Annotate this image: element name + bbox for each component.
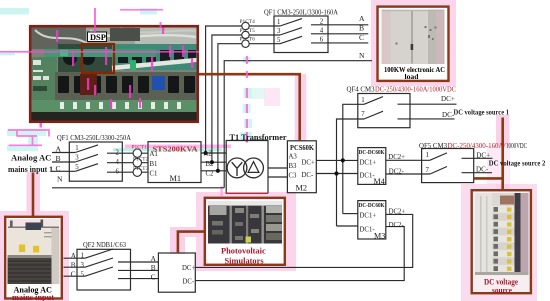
svg-text:3: 3 bbox=[75, 154, 79, 161]
svg-text:4: 4 bbox=[320, 27, 324, 34]
BOXES bbox=[69, 16, 473, 292]
wire QF2 out A to PV converter bbox=[118, 261, 158, 263]
wire M4 DC2+ to QF5 bbox=[386, 159, 430, 161]
transformer T1 delta symbol bbox=[248, 162, 259, 173]
svg-text:6: 6 bbox=[320, 36, 324, 43]
breaker QF1-160A blade pole3 bbox=[280, 28, 302, 35]
svg-text:B: B bbox=[359, 23, 364, 32]
junction node DC- bus bbox=[334, 171, 338, 175]
wire QF1-250A out A to STS bbox=[107, 152, 148, 154]
svg-text:DC2+: DC2+ bbox=[389, 208, 406, 215]
wire QF5 out DC+ bbox=[462, 157, 493, 159]
magenta vertical tick above DSP photo right bbox=[160, 22, 162, 28]
junction node DC+ bus bbox=[341, 158, 345, 162]
breaker QF1-160A blade pole1 bbox=[280, 19, 302, 26]
transformer T1 delta winding circle bbox=[244, 158, 264, 178]
svg-text:A3: A3 bbox=[289, 153, 298, 160]
svg-text:DC-DC60K: DC-DC60K bbox=[359, 203, 385, 209]
svg-text:7: 7 bbox=[361, 111, 365, 118]
svg-text:C: C bbox=[151, 272, 156, 281]
cyan smear top left bbox=[0, 8, 29, 15]
transformer T1 wye winding circle bbox=[227, 158, 247, 178]
glow right of QF5 bbox=[487, 146, 510, 184]
svg-text:4: 4 bbox=[116, 159, 120, 166]
svg-text:3: 3 bbox=[277, 28, 281, 35]
breaker QF1-160A blade pole5 bbox=[280, 36, 302, 43]
breaker QF2 NDB1/C63 box bbox=[77, 249, 131, 290]
svg-text:P1CT1: P1CT1 bbox=[132, 144, 148, 150]
DC source photo frame bbox=[472, 190, 531, 293]
breaker QF1 CM3-250L/3300-160A box bbox=[274, 16, 328, 53]
breaker QF4 blade pole7 bbox=[364, 111, 383, 119]
current transformer P1CT2 bbox=[133, 159, 141, 167]
analog AC mains input photo bbox=[5, 217, 62, 301]
glow around analog AC brown feeder bbox=[27, 172, 41, 217]
wire M3 DC2- loop to PV converter DC- bbox=[195, 227, 404, 281]
svg-text:N: N bbox=[57, 175, 63, 184]
DSP inverter cabinet photo bbox=[30, 26, 198, 122]
svg-text:A: A bbox=[56, 145, 62, 154]
svg-text:DC-: DC- bbox=[183, 278, 195, 285]
magenta tick below DSP photo bbox=[40, 120, 43, 128]
STS200KVA M1 box bbox=[148, 142, 201, 183]
svg-text:STS200KVA: STS200KVA bbox=[153, 145, 198, 154]
photovoltaic simulators feeder bbox=[178, 232, 205, 253]
current transformer P1CT3 bbox=[133, 168, 141, 176]
svg-text:3: 3 bbox=[81, 262, 85, 269]
svg-text:P1CT2: P1CT2 bbox=[133, 157, 149, 163]
wire QF5 out DC- bbox=[462, 172, 492, 174]
wire DC+ riser to QF4 pin1 and down to M3 bbox=[343, 104, 364, 213]
wire QF1-160A out A to load bbox=[311, 24, 368, 26]
breaker QF5 blade pole1 bbox=[430, 153, 447, 160]
svg-text:1: 1 bbox=[81, 253, 84, 260]
converter PCS60K M2 box bbox=[287, 141, 316, 193]
wire DC+ branch into M3 DC1+ bbox=[343, 213, 358, 215]
svg-text:DC1-: DC1- bbox=[360, 227, 376, 234]
current transformer P1CT5 bbox=[242, 31, 249, 38]
svg-text:DC-250/4300-160A/: DC-250/4300-160A/ bbox=[448, 141, 507, 150]
svg-text:A2: A2 bbox=[204, 151, 213, 158]
svg-text:QF1 CM3-250L/3300-160A: QF1 CM3-250L/3300-160A bbox=[264, 7, 339, 16]
svg-text:5: 5 bbox=[81, 271, 85, 278]
DSP control link to PCS60K bbox=[198, 74, 300, 140]
photovoltaic converter box bbox=[158, 253, 195, 292]
breaker QF1-250A blade pole3 bbox=[75, 154, 98, 162]
photovoltaic simulators photo bbox=[205, 198, 285, 265]
wire QF2 out B to PV converter bbox=[118, 269, 158, 271]
svg-text:B: B bbox=[151, 263, 156, 272]
svg-text:DC1+: DC1+ bbox=[360, 159, 377, 166]
svg-text:DC1+: DC1+ bbox=[360, 212, 377, 219]
breaker QF2 blade pole1 bbox=[85, 249, 113, 258]
teal dash on T1 top edge bbox=[250, 139, 267, 141]
wire neutral N bus bbox=[52, 187, 224, 189]
svg-text:M2: M2 bbox=[296, 184, 308, 193]
svg-text:A: A bbox=[151, 254, 157, 263]
breaker QF4 box bbox=[358, 94, 410, 128]
glow around 100KW load photo bbox=[371, 0, 456, 86]
BROWN bbox=[33, 74, 504, 253]
svg-text:DC-: DC- bbox=[476, 166, 489, 174]
svg-text:C: C bbox=[56, 164, 61, 173]
cyan dash left of magenta scan line bbox=[0, 53, 15, 56]
junction node STS A2 bbox=[204, 151, 208, 155]
svg-text:1: 1 bbox=[426, 152, 429, 159]
wire T1 secondary to PCS lower bbox=[268, 176, 288, 178]
pink tick left of T1 bottom bbox=[221, 186, 223, 196]
breaker QF1-250A blade pole5 bbox=[75, 164, 98, 172]
svg-text:P1CT3: P1CT3 bbox=[133, 166, 149, 172]
wire QF4 out DC+ bbox=[398, 103, 457, 105]
svg-text:DC2-: DC2- bbox=[389, 168, 405, 175]
wire DC- riser to QF4 pin7 and down to M3 bbox=[337, 119, 365, 226]
ARTIFACTS bbox=[0, 8, 280, 196]
svg-text:2: 2 bbox=[320, 18, 324, 25]
wire DC- branch into M3 DC1- bbox=[337, 225, 358, 227]
glow around DC voltage source photo bbox=[461, 184, 537, 301]
svg-text:DC+: DC+ bbox=[302, 160, 315, 167]
svg-text:QF1 CM3-250L/3300-250A: QF1 CM3-250L/3300-250A bbox=[57, 133, 132, 142]
svg-text:5: 5 bbox=[75, 164, 79, 171]
cyan band below STS label row bbox=[113, 148, 222, 151]
svg-text:C: C bbox=[359, 33, 364, 42]
current transformer P1CT1 bbox=[133, 149, 141, 157]
svg-text:B1: B1 bbox=[150, 161, 158, 168]
transformer T1 box bbox=[226, 141, 268, 194]
glow around analog AC mains photo bbox=[0, 211, 69, 301]
svg-text:B: B bbox=[71, 260, 76, 269]
svg-text:source: source bbox=[492, 286, 512, 295]
wire phase B into QF2 bbox=[64, 266, 86, 268]
wire STS A2 to T1 bbox=[201, 152, 226, 154]
svg-text:1: 1 bbox=[361, 97, 364, 104]
svg-text:1000VDC: 1000VDC bbox=[506, 141, 527, 150]
svg-text:DC2+: DC2+ bbox=[388, 154, 405, 161]
glow band along DC source 1 brown feeder bbox=[496, 115, 510, 190]
magenta dashed sampling trace bbox=[246, 88, 248, 142]
magenta tick over T1 label bbox=[246, 138, 248, 143]
svg-text:1: 1 bbox=[75, 145, 78, 152]
svg-text:M4: M4 bbox=[374, 177, 385, 186]
photovoltaic photo frame bbox=[205, 198, 285, 265]
breaker QF5 blade pole7 bbox=[430, 167, 447, 175]
breaker QF5 box bbox=[422, 149, 474, 183]
svg-text:C1: C1 bbox=[150, 170, 158, 177]
100KW electronic AC load photo bbox=[378, 7, 449, 81]
svg-text:1: 1 bbox=[277, 19, 280, 26]
svg-text:B3: B3 bbox=[289, 163, 298, 170]
cyan blobs of dashed sampling trace bbox=[240, 57, 252, 141]
svg-text:C: C bbox=[71, 270, 76, 279]
wire PCS DC- bus to M4 bbox=[316, 173, 358, 175]
wire QF2 out C to PV converter bbox=[118, 278, 158, 280]
converter DC-DC60K M3 box bbox=[358, 201, 386, 239]
svg-text:DC voltage source 1: DC voltage source 1 bbox=[454, 107, 510, 116]
wire QF1-250A out C to STS bbox=[107, 171, 148, 173]
wire STS B2 to T1 bbox=[201, 161, 226, 163]
svg-text:A: A bbox=[359, 14, 365, 23]
wire riser C to CT6 bbox=[218, 44, 280, 171]
converter DC-DC60K M4 box bbox=[358, 148, 386, 185]
svg-text:QF4 CM3: QF4 CM3 bbox=[347, 85, 375, 94]
svg-text:PCS60K: PCS60K bbox=[290, 143, 314, 152]
svg-text:A: A bbox=[71, 251, 77, 260]
wire neutral riser to load bbox=[224, 61, 372, 188]
svg-text:Analog AC: Analog AC bbox=[11, 153, 51, 163]
svg-text:N: N bbox=[359, 51, 365, 60]
wire phase C into QF2 bbox=[64, 275, 86, 277]
wire phase A into QF2 bbox=[64, 257, 86, 259]
svg-text:5: 5 bbox=[277, 37, 281, 44]
svg-text:P1CT4: P1CT4 bbox=[240, 19, 256, 25]
wire phase C into QF1 mains bbox=[52, 170, 75, 172]
svg-text:Photovoltaic: Photovoltaic bbox=[221, 247, 266, 256]
svg-text:DC-DC60K: DC-DC60K bbox=[359, 150, 385, 156]
pale pink block right of DSP photo bbox=[264, 88, 280, 106]
junction node STS B2 bbox=[210, 160, 214, 164]
svg-text:T1 Transformer: T1 Transformer bbox=[230, 133, 287, 142]
svg-text:DC+: DC+ bbox=[441, 95, 455, 103]
svg-text:7: 7 bbox=[426, 167, 430, 174]
svg-text:B: B bbox=[56, 154, 61, 163]
current transformer P1CT6 bbox=[242, 40, 249, 47]
magenta band through STS label row bbox=[125, 145, 231, 149]
DSP photo frame bbox=[30, 26, 198, 122]
svg-text:QF2 NDB1/C63: QF2 NDB1/C63 bbox=[83, 240, 126, 249]
svg-text:Simulators: Simulators bbox=[225, 256, 265, 265]
magenta vertical tick above DSP photo bbox=[94, 8, 96, 33]
wire PCS DC+ bus to M4 bbox=[316, 159, 358, 161]
analog AC photo frame bbox=[5, 217, 62, 299]
svg-text:DC2-: DC2- bbox=[389, 222, 405, 229]
transformer T1 crimson bottom edge bbox=[226, 192, 268, 194]
svg-text:M3: M3 bbox=[374, 231, 385, 240]
breaker QF1-250A blade pole1 bbox=[75, 145, 98, 153]
analog AC mains feeder bbox=[32, 173, 35, 217]
magenta ticks crossing N bus and DSP link bbox=[246, 56, 248, 64]
wire M4 DC2- to QF5 bbox=[386, 173, 430, 175]
svg-text:DC voltage source 2: DC voltage source 2 bbox=[489, 158, 546, 167]
pale cyan block right of DSP photo bbox=[248, 88, 265, 99]
transformer T1 wye symbol bbox=[232, 162, 243, 176]
DC voltage source 1 feeder bbox=[501, 118, 504, 191]
magenta scan line across DSP photo bbox=[0, 51, 199, 53]
wire phase A into QF1 mains bbox=[52, 152, 75, 154]
100KW load photo frame bbox=[378, 7, 449, 81]
wire QF4 out DC- bbox=[398, 118, 455, 120]
svg-text:C3: C3 bbox=[289, 173, 298, 180]
wire riser A to CT4 bbox=[206, 26, 280, 153]
svg-text:C2: C2 bbox=[206, 171, 215, 178]
junction node STS C2 bbox=[216, 169, 220, 173]
QF5 to DC voltage source feeder bbox=[474, 177, 504, 180]
svg-text:mains input 1: mains input 1 bbox=[8, 164, 53, 174]
breaker QF2 blade pole5 bbox=[85, 267, 113, 276]
svg-text:load: load bbox=[405, 72, 420, 81]
svg-text:mains input: mains input bbox=[12, 293, 54, 301]
wire QF1-250A out B to STS bbox=[107, 162, 148, 164]
breaker QF2 blade pole3 bbox=[85, 258, 113, 267]
DC voltage source photo bbox=[472, 190, 531, 295]
wire phase B into QF1 mains bbox=[52, 161, 75, 163]
svg-text:DC-: DC- bbox=[302, 172, 314, 179]
glow around photovoltaic simulators photo bbox=[196, 192, 296, 271]
svg-text:QF5 CM3: QF5 CM3 bbox=[419, 141, 447, 150]
wire riser B to CT5 bbox=[212, 35, 280, 162]
glow around photovoltaic brown feeder bbox=[170, 227, 206, 237]
wire QF1-160A out C to load bbox=[311, 42, 368, 44]
current transformer P1CT4 bbox=[242, 22, 249, 29]
glow around PCS brown feeder bbox=[295, 74, 306, 141]
DSP label box bbox=[88, 32, 107, 42]
breaker QF1 CM3-250L/3300-250A box bbox=[69, 142, 122, 181]
svg-text:P1CT5: P1CT5 bbox=[240, 28, 256, 34]
svg-text:DC+: DC+ bbox=[182, 265, 195, 272]
svg-text:M1: M1 bbox=[170, 174, 182, 183]
breaker QF4 blade pole1 bbox=[364, 97, 383, 105]
wire STS C2 to T1 bbox=[201, 170, 226, 172]
svg-text:DSP: DSP bbox=[90, 33, 106, 42]
OVERLAY bbox=[0, 8, 248, 78]
svg-text:P1CT6: P1CT6 bbox=[240, 37, 256, 43]
svg-text:A1: A1 bbox=[150, 151, 158, 158]
svg-text:DC-250/4300-160A/1000VDC: DC-250/4300-160A/1000VDC bbox=[375, 85, 456, 94]
wire QF1-160A out B to load bbox=[311, 33, 368, 35]
svg-text:B2: B2 bbox=[206, 161, 215, 168]
svg-text:2: 2 bbox=[116, 149, 120, 156]
DSP chip outline bbox=[82, 44, 114, 73]
magenta cyan staircase below DSP photo bbox=[7, 129, 46, 136]
svg-text:6: 6 bbox=[116, 168, 120, 175]
wire M3 DC2+ loop to PV converter DC+ bbox=[195, 214, 412, 267]
wire T1 secondary to PCS upper bbox=[268, 167, 288, 169]
